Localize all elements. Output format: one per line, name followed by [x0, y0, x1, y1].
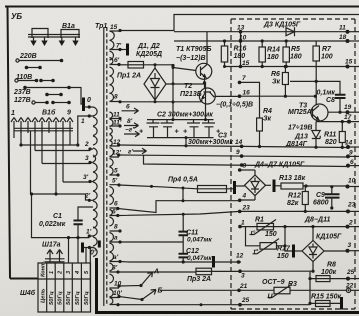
svg-text:МП25А: МП25А: [288, 109, 312, 116]
svg-text:9: 9: [236, 149, 240, 156]
svg-text:12: 12: [236, 253, 244, 260]
svg-text:21: 21: [239, 283, 248, 290]
svg-text:R8: R8: [327, 262, 336, 269]
T1 emitter to junction: [204, 78, 206, 89]
237V contact row: [45, 93, 49, 97]
svg-text:0,047мк: 0,047мк: [187, 237, 212, 244]
svg-text:100: 100: [321, 54, 333, 61]
R4 bottom to row14: [259, 131, 261, 147]
svg-text:Цепь: Цепь: [41, 288, 47, 303]
wire bridge right corner to T1/T2 junction: [166, 83, 205, 85]
svg-text:100к: 100к: [321, 269, 337, 276]
switch B1a arrow 2: [44, 37, 46, 41]
svg-text:25: 25: [346, 269, 355, 276]
matrix drop from bus pos9: [69, 131, 71, 145]
tap a wire to C11/C12 junction: [120, 241, 183, 243]
svg-text:КД105Г: КД105Г: [316, 234, 342, 241]
resistor R7: [313, 46, 319, 61]
vertical R8-R15-pin3 link: [309, 271, 311, 303]
svg-text:Д1, Д2: Д1, Д2: [137, 43, 160, 50]
T1 collector up to node 13 row: [206, 32, 208, 65]
svg-text:18: 18: [339, 34, 347, 41]
svg-text:180: 180: [234, 53, 246, 60]
Tr1 core lines: [103, 27, 105, 306]
110V contact row: [15, 79, 18, 82]
svg-text:R15 150к: R15 150к: [311, 294, 341, 301]
svg-text:R11: R11: [324, 132, 336, 139]
svg-text:В1б: В1б: [42, 109, 56, 117]
svg-text:220В: 220В: [19, 53, 37, 60]
svg-text:t°: t°: [251, 229, 256, 237]
svg-text:9: 9: [67, 110, 71, 117]
svg-text:Д8−Д11: Д8−Д11: [304, 217, 330, 224]
svg-text:6: 6: [114, 201, 118, 208]
svg-text:2': 2': [84, 193, 91, 200]
tap 7' wire and terminal bar: [118, 48, 121, 51]
svg-text:17÷19В: 17÷19В: [288, 125, 312, 132]
svg-text:А: А: [153, 269, 159, 276]
127V contact row: [32, 101, 35, 104]
svg-text:R14: R14: [267, 47, 280, 54]
page border bottom-left corner to table: [10, 278, 38, 280]
svg-text:Д3 КД105Г: Д3 КД105Г: [263, 22, 301, 29]
svg-text:R6: R6: [271, 71, 280, 78]
row 14: tap12 wire across: [119, 145, 348, 148]
svg-text:1': 1': [86, 229, 92, 236]
svg-text:R4: R4: [263, 108, 272, 115]
svg-text:180: 180: [267, 54, 279, 61]
svg-text:г': г': [128, 149, 133, 156]
svg-text:Б: Б: [158, 288, 163, 295]
T3 bottom to node 17 row: [316, 121, 349, 122]
terminal 0 bar: [82, 98, 85, 112]
arrow 6 (off-page): [122, 108, 139, 114]
svg-text:R7: R7: [322, 46, 332, 53]
svg-text:6: 6: [126, 104, 130, 111]
matrix row to tap 2': [31, 194, 90, 200]
T3 emitter row to node 19: [328, 111, 348, 113]
matrix drop from bus pos3: [30, 131, 32, 194]
svg-text:3: 3: [241, 273, 245, 280]
resistor R8: [310, 278, 348, 280]
table column lines: [47, 263, 82, 312]
svg-text:С1: С1: [53, 213, 62, 220]
wire tap8 row y=101.8: [120, 101, 202, 103]
page border top: [5, 6, 359, 8]
svg-text:19: 19: [344, 104, 352, 111]
wire 0-terminal to winding top: [85, 106, 94, 108]
svg-text:3: 3: [348, 242, 352, 249]
svg-text:−(0,1÷0,5)В: −(0,1÷0,5)В: [216, 102, 253, 109]
transistor T2: [199, 88, 215, 104]
svg-text:50Гц: 50Гц: [75, 291, 81, 305]
svg-text:−г': −г': [125, 127, 134, 134]
switch arm B: [140, 298, 143, 301]
varistor to node 22: [290, 289, 346, 291]
matrix stub from bus pos1: [13, 131, 15, 138]
switch B1a arrow 3: [61, 37, 63, 41]
matrix drop from bus pos4: [34, 131, 36, 151]
Tr1 primary winding (right-bulging arcs on chord x=93): [93, 107, 97, 257]
bridge D8-D11 bottom corner wire: [312, 262, 314, 272]
electrolytic caps group: [147, 119, 214, 121]
matrix row to tap 3: [42, 163, 90, 165]
svg-text:+: +: [183, 129, 187, 136]
svg-text:Т1 КТ905Б: Т1 КТ905Б: [176, 46, 211, 53]
zener D13: [315, 122, 317, 130]
wire T1 base from x=173: [173, 68, 196, 71]
matrix row to tap 2: [35, 150, 90, 152]
svg-text:8: 8: [243, 163, 247, 170]
tap a' wire joins C12 bottom wire: [120, 261, 183, 264]
B1b arrow contacts (open V pointing up): [11, 118, 17, 132]
bridge D8-D11 top stub: [312, 227, 314, 241]
bridge D4-D7: [245, 170, 266, 196]
vertical bus x=173: [172, 66, 174, 120]
svg-text:11: 11: [339, 25, 346, 32]
svg-text:15: 15: [345, 59, 353, 66]
C1 top stub to winding tap: [78, 207, 93, 221]
switch B1a arrow 4: [75, 37, 77, 41]
svg-text:С9: С9: [316, 192, 325, 199]
svg-text:150: 150: [277, 253, 289, 260]
connector table frame: [38, 263, 91, 312]
svg-text:10: 10: [348, 178, 356, 185]
arrow -g' (off-page): [124, 131, 140, 137]
svg-text:82к: 82к: [287, 200, 299, 207]
vertical link 13-10-15: [240, 32, 242, 67]
svg-text:25: 25: [241, 297, 250, 304]
svg-text:Т2: Т2: [184, 83, 192, 90]
svg-text:0,1мк: 0,1мк: [317, 90, 336, 97]
riser from bottom bus to row14: [185, 138, 187, 146]
svg-text:50Гц: 50Гц: [49, 291, 55, 305]
svg-text:Ш4б: Ш4б: [20, 289, 36, 297]
riser to tap 1: [78, 116, 90, 145]
svg-text:23: 23: [242, 205, 251, 212]
svg-text:8: 8: [114, 224, 118, 231]
svg-text:180: 180: [290, 54, 302, 61]
resistor R13: [281, 183, 303, 189]
svg-text:6800: 6800: [313, 200, 329, 207]
fuse Pr1 2A: [117, 63, 120, 66]
bridge D1D2 (diamond with diode): [144, 68, 166, 100]
svg-text:0,047мк: 0,047мк: [187, 255, 212, 262]
svg-text:ОСТ−9: ОСТ−9: [262, 279, 285, 286]
svg-text:2: 2: [84, 141, 89, 148]
diode D3: [286, 27, 295, 36]
svg-text:R12: R12: [288, 193, 301, 200]
svg-text:6: 6: [350, 159, 354, 166]
wire 0' down to shield: [89, 248, 91, 305]
bridge D8-D11 right corner to node 3: [324, 250, 348, 252]
svg-text:16: 16: [243, 90, 251, 97]
svg-text:23: 23: [347, 202, 356, 209]
varistor R3: [274, 287, 290, 294]
C8 bottom stub: [339, 98, 341, 112]
svg-text:R5: R5: [291, 46, 300, 53]
svg-text:−(3−12)В: −(3−12)В: [176, 55, 206, 62]
svg-text:5: 5: [114, 168, 118, 175]
svg-text:а': а': [113, 254, 119, 261]
svg-text:Д4−Д7 КД105Г: Д4−Д7 КД105Г: [254, 162, 305, 169]
wire from 110V row to terminal 0: [69, 88, 83, 105]
riser from top bus to x=173: [172, 118, 175, 121]
arrow 8' (off-page): [124, 123, 139, 129]
Tr1 primary tap stubs: [89, 116, 93, 248]
svg-text:820: 820: [325, 139, 337, 146]
caps bottom bus: [147, 137, 214, 139]
matrix drop from bus pos2: [20, 131, 22, 145]
Tr1 secondary winding (right-bulging arcs on chord x=109.5): [110, 31, 115, 305]
secondary tap stubs: [110, 31, 121, 305]
svg-text:0: 0: [87, 97, 91, 104]
svg-text:8: 8: [114, 94, 118, 101]
svg-text:Д13: Д13: [294, 134, 308, 141]
resistor R15: [316, 301, 331, 307]
svg-text:237В: 237В: [13, 89, 31, 96]
matrix drop from bus pos7: [62, 131, 64, 182]
long contact row to 0-terminal: [23, 86, 27, 90]
resistor R16: [221, 46, 227, 62]
terminal bar at bridge left (from Pr4): [233, 181, 236, 194]
switch B1a arrow 1: [33, 37, 35, 41]
svg-text:50Гц: 50Гц: [84, 291, 90, 305]
svg-text:Тр1: Тр1: [95, 23, 107, 30]
svg-text:300мк+300мк: 300мк+300мк: [188, 139, 233, 146]
wire left L to tap 1': [32, 194, 90, 238]
svg-text:5': 5': [112, 178, 118, 185]
table texts row1: [41, 260, 90, 277]
svg-text:t°: t°: [254, 248, 259, 256]
wire table col3 up to L-wire: [68, 238, 70, 263]
svg-text:Ш17а: Ш17а: [42, 242, 61, 249]
svg-text:50Гц: 50Гц: [58, 291, 64, 305]
svg-text:С2 300мк+300мк: С2 300мк+300мк: [157, 112, 213, 119]
switch B1a bus (double line): [28, 35, 80, 38]
svg-text:С8: С8: [326, 97, 335, 104]
row 9: tap12' wire across: [119, 155, 348, 157]
svg-text:1: 1: [11, 110, 15, 117]
wire tap15 to corner: [120, 15, 359, 31]
table texts row2: [41, 288, 90, 305]
riser from Pr4 wire down to row4: [182, 188, 184, 201]
svg-text:П213Б: П213Б: [180, 91, 202, 98]
matrix drop from bus pos6: [55, 131, 57, 194]
Sh17a bracket: [45, 259, 65, 262]
switch B1a right bracket: [61, 30, 79, 39]
svg-text:Пр1 2А: Пр1 2А: [117, 73, 141, 80]
resistor R5: [283, 47, 289, 62]
row 6 with corner from row 9: [144, 155, 349, 166]
svg-text:Конт.: Конт.: [41, 260, 47, 277]
row node10: [174, 40, 348, 42]
dashed stabilizer box: [231, 19, 355, 309]
wire table col5 up to 0': [85, 248, 87, 264]
bridge D8-D11: [302, 241, 324, 262]
capacitor C11: [179, 232, 189, 236]
svg-text:+: +: [139, 129, 143, 136]
shield bus bottom (thick): [95, 311, 359, 314]
svg-text:R13 18к: R13 18к: [279, 175, 306, 182]
svg-text:а: а: [114, 235, 118, 242]
switch arm A: [139, 284, 142, 287]
svg-text:УБ: УБ: [11, 12, 22, 21]
svg-text:7: 7: [242, 75, 246, 82]
svg-text:R16: R16: [234, 46, 247, 53]
svg-text:14: 14: [235, 139, 243, 146]
wire T3 collector node to C8: [290, 81, 340, 94]
matrix row to tap1 riser: [21, 144, 78, 146]
svg-text:4: 4: [242, 193, 247, 200]
shield vertical from node 0': [95, 258, 98, 313]
svg-text:Зк: Зк: [263, 116, 271, 123]
R15 right terminal bar: [340, 297, 343, 310]
svg-text:8': 8': [112, 265, 118, 272]
terminal bar before R13: [273, 180, 276, 193]
arrow g' (off-page): [133, 148, 147, 154]
svg-text:1: 1: [81, 118, 85, 125]
node 0' wire: [84, 247, 94, 249]
capacitor C1: [74, 221, 83, 225]
wire node16 row to T3 collector stub: [240, 95, 316, 97]
220V contact row: [16, 59, 19, 62]
svg-text:R1: R1: [255, 217, 264, 224]
page border left: [8, 7, 11, 279]
riser from top bus to node7 wire: [205, 82, 207, 119]
svg-text:3: 3: [85, 155, 89, 162]
svg-text:127В: 127В: [14, 97, 31, 104]
terminal 0' bar: [81, 243, 84, 253]
matrix row to tap 3': [63, 181, 90, 183]
transistor T1: [196, 63, 212, 79]
capacitor C8: [335, 95, 346, 98]
row node15: [225, 66, 348, 68]
switch B1a left bracket: [32, 29, 48, 39]
svg-text:КД205Д: КД205Д: [136, 51, 162, 58]
terminal 0' mating bar: [98, 241, 101, 248]
T2 emitter down: [201, 100, 203, 102]
contact link row under 220V: [25, 66, 29, 70]
svg-text:Пр4 0,5А: Пр4 0,5А: [168, 177, 198, 184]
row 23: tap6' wire across: [118, 211, 348, 215]
terminal bar left of bridge D8-D11: [292, 245, 295, 258]
svg-text:17: 17: [344, 114, 352, 121]
capacitor C12: [179, 254, 189, 258]
bridge D4-D7 right corner to R13 terminal: [266, 184, 272, 186]
B1b bus (double line): [14, 128, 74, 131]
wire fuse to bridge and to vertical: [144, 64, 174, 66]
svg-text:1: 1: [49, 271, 55, 274]
svg-text:50Гц: 50Гц: [66, 291, 72, 305]
C1 bottom stub: [77, 224, 79, 237]
svg-text:Зк: Зк: [272, 79, 280, 86]
svg-text:1: 1: [241, 220, 245, 227]
row node13: T1 collector to diode D3 to node 11: [174, 31, 348, 33]
row 4: tap6 wire to bridge bottom: [118, 196, 255, 213]
svg-text:15: 15: [242, 60, 250, 67]
matrix drop from bus pos5: [41, 131, 43, 164]
Sh17a arrows up: [47, 250, 53, 263]
svg-text:3': 3': [83, 174, 89, 181]
svg-text:Пр3 2А: Пр3 2А: [187, 276, 211, 283]
thermistor R17 (parallel): [246, 227, 261, 246]
svg-text:15: 15: [110, 24, 118, 31]
R7 bottom stub down to T3 collector: [315, 61, 317, 105]
svg-text:8': 8': [127, 118, 133, 125]
wire table col4 up to C1 bottom: [77, 238, 79, 263]
transistor T3: [311, 104, 328, 121]
resistor R14: [259, 47, 265, 62]
svg-text:0,022мк: 0,022мк: [39, 221, 66, 228]
svg-text:150: 150: [265, 231, 277, 238]
svg-text:+: +: [175, 129, 179, 136]
capacitor C9: [331, 187, 333, 194]
